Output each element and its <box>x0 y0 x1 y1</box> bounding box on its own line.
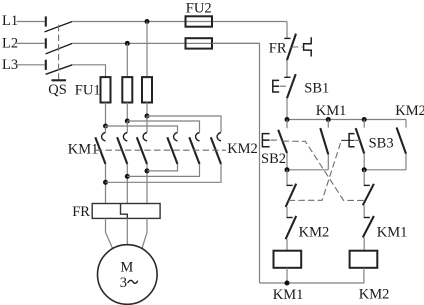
svg-text:KM2: KM2 <box>359 287 390 303</box>
contactor KM1 main contact 3 <box>137 133 147 165</box>
wire KM1-2 top <box>126 121 128 132</box>
wire coil KM1 to rail <box>286 268 288 283</box>
wire L2 drop to FU1 <box>126 43 128 77</box>
svg-text:QS: QS <box>48 82 67 98</box>
wire FU1-3 to node <box>146 103 148 117</box>
wire branch2 down <box>363 170 365 185</box>
svg-text:KM2: KM2 <box>299 225 330 241</box>
wire SB1 to rail <box>286 98 288 119</box>
node junction motor phase 1 <box>103 180 108 185</box>
button SB2 actuator E <box>262 134 269 147</box>
wire L1 input <box>17 21 45 23</box>
wire L2 bus <box>72 42 259 44</box>
contactor KM1 NC interlock blade <box>363 216 374 237</box>
wire FR to motor 1 <box>106 218 113 248</box>
wire coil KM2 to rail <box>363 268 365 283</box>
wire KM1 KM2 main linkage dashed <box>96 149 226 151</box>
svg-text:KM1: KM1 <box>377 225 408 241</box>
node junction motor phase 2 <box>125 174 130 179</box>
node junction under FU1-3 <box>145 114 150 119</box>
wire KM1-2 bottom <box>126 164 128 204</box>
button SB2 link dashed <box>271 139 278 141</box>
node junction bottom rail <box>285 281 290 286</box>
svg-text:KM2: KM2 <box>227 141 258 157</box>
wire FR to motor 2 <box>126 218 128 244</box>
wire FR to motor 3 <box>142 218 147 248</box>
button SB3 NO contact <box>356 120 365 170</box>
wire FU1-2 to node <box>126 103 128 122</box>
button SB3 actuator E <box>349 134 354 147</box>
wire control node rail <box>287 119 406 121</box>
wire KM2-1 bottom crossover <box>147 164 178 171</box>
coil KM1 <box>274 251 302 268</box>
wire SB3 linkage to forward NC dashed <box>289 141 342 201</box>
wire KM1-3 top <box>146 116 148 132</box>
button SB1 NC tick <box>284 76 290 78</box>
wire KM2 aux join <box>364 169 406 171</box>
svg-text:L3: L3 <box>2 57 18 73</box>
contactor KM2 NC interlock blade <box>286 216 297 239</box>
button SB3 NC interlock tick <box>287 184 293 186</box>
contactor KM2 main contact 2 <box>189 133 199 165</box>
contactor KM2 main contact 3 <box>211 133 221 165</box>
svg-text:FR: FR <box>72 204 90 220</box>
relay FR heater box <box>92 204 160 219</box>
svg-text:FU2: FU2 <box>186 1 212 17</box>
button SB2 NC interlock blade <box>363 184 374 206</box>
node junction motor phase 3 <box>145 168 150 173</box>
wire L2 input <box>17 42 45 44</box>
switch QS pole 2 fixed contact <box>45 38 47 48</box>
switch QS handle bar <box>52 79 67 81</box>
switch QS pole 1 fixed contact <box>45 16 47 26</box>
relay FR NC link dashed <box>292 46 303 48</box>
contactor KM1 main contact 1 <box>95 133 105 165</box>
wire FU1-1 to node <box>105 103 107 127</box>
switch QS pole 1 blade <box>45 22 73 32</box>
wire KM1-3 bottom <box>146 164 148 204</box>
wire SB2 linkage to reverse NC dashed <box>283 141 366 200</box>
button SB1 NC blade <box>287 74 296 98</box>
wire branch2 mid <box>363 205 365 217</box>
svg-text:SB2: SB2 <box>261 151 286 167</box>
node junction rail SB3 <box>362 117 367 122</box>
wire KM2-3 bottom crossover <box>106 164 222 182</box>
svg-text:L1: L1 <box>2 13 18 29</box>
wire L1 bus <box>72 21 287 23</box>
wire branch2 to coil <box>363 237 365 250</box>
svg-text:SB1: SB1 <box>304 81 329 97</box>
fuse FU1 element 3 <box>142 77 152 102</box>
wire feed to KM2-3 <box>147 116 221 132</box>
button SB3 link dashed <box>355 139 360 141</box>
node junction L2 tap <box>125 41 130 46</box>
switch QS pole 3 fixed contact <box>45 60 47 70</box>
contactor KM2 NC interlock tick <box>287 217 293 219</box>
svg-text:3: 3 <box>120 275 127 291</box>
switch QS pole 3 blade <box>46 65 73 75</box>
coil KM2 <box>350 251 378 268</box>
svg-text:M: M <box>120 259 133 275</box>
wire L3 input <box>17 64 45 66</box>
switch QS linkage dashed <box>58 25 60 80</box>
wire feed to KM2-1 <box>106 126 178 132</box>
relay FR NC contact tick <box>284 37 290 39</box>
button SB2 NC interlock tick <box>364 184 370 186</box>
wire bottom rail <box>260 282 365 284</box>
svg-text:KM2: KM2 <box>395 103 424 119</box>
wire SB3 actuator arm <box>341 139 354 141</box>
node junction under FU1-2 <box>125 119 130 124</box>
wire KM1-1 bottom <box>105 164 107 204</box>
button SB3 NC interlock blade <box>286 184 297 207</box>
wire KM1-1 top <box>105 126 107 132</box>
node junction branch2 <box>362 167 367 172</box>
wire KM2-2 bottom crossover <box>127 164 199 176</box>
wire branch1 to coil <box>286 239 288 251</box>
svg-text:L2: L2 <box>2 35 18 51</box>
node junction rail KM1 aux <box>326 117 331 122</box>
svg-text:SB3: SB3 <box>369 136 394 152</box>
relay FR NC contact blade <box>287 34 296 60</box>
switch QS pole 2 blade <box>46 43 73 54</box>
button SB2 NO contact <box>278 120 287 170</box>
wire control feed from L1 <box>286 22 288 39</box>
fuse FU1 element 2 <box>122 77 132 102</box>
node junction L1 tap <box>145 19 150 24</box>
contactor KM1 main contact 2 <box>117 133 127 165</box>
wire L1 drop to FU1 <box>146 22 148 78</box>
wire feed to KM2-2 <box>127 121 199 132</box>
wire KM1 aux join <box>287 169 328 171</box>
node junction under FU1-1 <box>103 124 108 129</box>
relay FR actuator symbol <box>304 37 312 56</box>
contactor KM1 NC interlock tick <box>364 217 370 219</box>
node junction branch1 <box>285 167 290 172</box>
wire return from FU2-2 <box>212 43 260 283</box>
wire FR to SB1 <box>286 60 288 77</box>
svg-text:FR: FR <box>269 40 287 56</box>
button SB1 link dashed <box>280 85 286 87</box>
contactor KM2 main contact 1 <box>167 133 177 165</box>
contactor KM2 aux NO contact <box>397 120 406 170</box>
svg-text:FU1: FU1 <box>75 82 101 98</box>
relay FR heater step <box>121 204 128 219</box>
svg-text:KM1: KM1 <box>68 141 99 157</box>
node junction rail left <box>285 117 290 122</box>
motor M circle <box>98 245 158 305</box>
svg-text:KM1: KM1 <box>273 287 304 303</box>
wire branch1 mid <box>286 207 288 217</box>
fuse FU2 element 1 <box>186 16 213 26</box>
button SB1 actuator E <box>273 80 279 92</box>
wire branch1 down <box>286 170 288 185</box>
fuse FU1 element 1 <box>101 77 111 102</box>
fuse FU2 element 2 <box>186 38 213 48</box>
svg-text:KM1: KM1 <box>316 103 347 119</box>
wire L3 bus <box>72 65 105 77</box>
contactor KM1 aux NO contact <box>320 120 328 170</box>
